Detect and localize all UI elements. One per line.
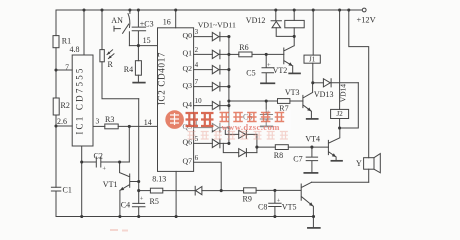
diode VD12 <box>271 10 281 21</box>
capacitor C7 <box>306 147 317 172</box>
wire left rail segments <box>55 10 57 217</box>
svg-text:15: 15 <box>143 36 151 45</box>
svg-text:C1: C1 <box>63 186 72 195</box>
svg-text:14: 14 <box>144 118 152 127</box>
wire IC2 Q3 row <box>194 86 213 88</box>
wire VD8/VD9 junction <box>256 134 258 152</box>
diode VD5 <box>212 101 219 109</box>
capacitor C5 <box>262 54 274 82</box>
op-amp U1 IC1 CD7555 box <box>72 55 93 146</box>
svg-text:7: 7 <box>195 78 199 86</box>
svg-text:C4: C4 <box>121 201 130 210</box>
svg-text:C7: C7 <box>293 154 302 163</box>
light arrows into R <box>107 50 114 59</box>
ground under VT4 emitter <box>331 160 342 162</box>
capacitor C1 <box>51 187 60 191</box>
photoresistor R <box>101 10 103 50</box>
svg-text:VD14: VD14 <box>339 84 348 103</box>
diode VD9 <box>239 149 246 157</box>
ground under C7 <box>304 172 317 174</box>
svg-text:IC1 CD7555: IC1 CD7555 <box>75 66 85 134</box>
diode VD3 <box>212 65 219 73</box>
svg-text:R4: R4 <box>124 65 133 74</box>
wire IC2 pin 15 row <box>129 45 157 47</box>
relay coil J1 <box>312 10 314 55</box>
svg-text:R2: R2 <box>61 101 70 110</box>
capacitor C6 <box>260 101 272 126</box>
svg-text:VT3: VT3 <box>285 88 300 97</box>
ground under VT3 emitter <box>307 118 318 120</box>
ground under VT5 emitter <box>308 227 320 229</box>
wire R bottom down to VT1 base / R5 node <box>138 99 140 204</box>
capacitor C8 <box>269 190 281 216</box>
transistor Q4 VT4 <box>328 128 339 160</box>
resistor R6 <box>229 53 239 55</box>
svg-text:www.dzsc.com: www.dzsc.com <box>222 122 281 132</box>
capacitor C4 <box>132 203 145 216</box>
wire IC2 Q6 row <box>194 142 213 144</box>
switch AN <box>129 10 131 13</box>
node +12V terminal <box>362 8 366 12</box>
transistor Q2 VT2 <box>284 36 294 73</box>
svg-text:VT1: VT1 <box>103 180 118 189</box>
wire VT5 collector to speaker <box>312 181 369 183</box>
diode VD2 <box>212 50 219 58</box>
wire IC1 pin 1 to ground rail <box>81 146 83 217</box>
svg-text:16: 16 <box>163 17 171 26</box>
svg-text:3: 3 <box>96 117 100 126</box>
diode VD7 <box>212 139 219 147</box>
wire IC2 Q1 row <box>194 53 213 55</box>
svg-text:4: 4 <box>195 61 199 69</box>
svg-text:R5: R5 <box>150 197 159 206</box>
svg-text:VT2: VT2 <box>273 66 288 75</box>
wire bus tap to R7 <box>229 100 278 102</box>
relay coil J2 feed wire <box>339 10 341 109</box>
svg-text:R8: R8 <box>274 151 283 160</box>
wire IC2 Q2 row <box>194 69 213 71</box>
svg-text:Y: Y <box>356 159 362 168</box>
diode VD8 <box>239 130 246 138</box>
diode VD13 row <box>313 82 324 84</box>
svg-text:6: 6 <box>195 154 199 162</box>
svg-text:+C3: +C3 <box>140 20 154 29</box>
wire IC2 pins 8,13 to ground rail <box>175 171 177 216</box>
ground under VT2 emitter <box>289 72 300 74</box>
transistor Q1 VT1 <box>120 162 139 217</box>
wire IC2 pin 16 to rail <box>175 10 177 28</box>
transistor Q5 VT5 <box>275 182 314 227</box>
wire IC2 Q4 row <box>194 105 213 107</box>
svg-text:2.6: 2.6 <box>57 117 67 126</box>
svg-text:8.13: 8.13 <box>152 175 166 184</box>
svg-text:Q2: Q2 <box>182 64 192 73</box>
wire Q5 stub to VD8 <box>225 128 238 135</box>
diode VD6 <box>212 123 219 131</box>
svg-text:+: + <box>277 197 281 204</box>
svg-text:Q7: Q7 <box>182 157 192 166</box>
wire IC2 Q5 row <box>194 127 213 129</box>
svg-text:+: + <box>140 196 144 203</box>
svg-text:C2: C2 <box>94 151 103 160</box>
wire Q7 row <box>194 162 222 190</box>
resistor R7 <box>278 99 290 104</box>
svg-text:J2: J2 <box>336 110 343 118</box>
svg-text:R: R <box>108 60 114 69</box>
capacitor C2 <box>82 157 130 167</box>
svg-text:Q0: Q0 <box>182 31 192 40</box>
wire IC1 pin 3 to R3 <box>93 125 105 127</box>
relay coil J2 <box>331 109 349 118</box>
wire IC1 pin 7 <box>56 69 72 71</box>
svg-text:J1: J1 <box>309 56 316 64</box>
wire IC1 pins 2,6 <box>56 125 72 127</box>
svg-text:Q3: Q3 <box>182 81 192 90</box>
svg-text:+12V: +12V <box>357 16 376 25</box>
ground under C5 <box>261 82 274 84</box>
svg-text:Q4: Q4 <box>182 100 192 109</box>
svg-text:R6: R6 <box>239 43 248 52</box>
svg-text:+: + <box>102 166 106 173</box>
svg-text:VD1~VD11: VD1~VD11 <box>198 21 236 30</box>
wire ground bottom rail <box>56 216 314 218</box>
ground under C6 <box>261 125 273 127</box>
resistor R8 <box>257 146 275 148</box>
IC U2 IC2 CD4017 box <box>158 28 194 172</box>
svg-text:VT5: VT5 <box>282 203 297 212</box>
svg-text:C5: C5 <box>246 68 255 77</box>
svg-text:VD13: VD13 <box>314 90 334 99</box>
diode VD11 <box>194 186 196 195</box>
wire pin14 node down to C2 row <box>128 126 130 162</box>
svg-text:7: 7 <box>65 63 69 72</box>
svg-text:Q1: Q1 <box>182 49 192 58</box>
svg-text:+: + <box>267 62 271 69</box>
resistor R9 <box>244 188 257 193</box>
svg-text:IC2 CD4017: IC2 CD4017 <box>157 52 167 105</box>
resistor R4 <box>137 46 139 61</box>
resistor R2 <box>53 98 59 115</box>
capacitor C3 <box>132 10 145 46</box>
resistor R3 <box>105 124 118 129</box>
svg-text:VD12: VD12 <box>246 16 266 25</box>
watermark <box>110 110 291 231</box>
svg-text:VT4: VT4 <box>305 135 320 144</box>
wire R3 to IC2 pin 14 <box>118 125 157 127</box>
ground under R4 <box>133 82 145 84</box>
svg-text:AN: AN <box>111 16 123 25</box>
svg-text:C8: C8 <box>258 203 267 212</box>
transistor Q3 VT3 <box>303 83 313 119</box>
svg-text:R3: R3 <box>105 115 114 124</box>
relay contact J1-1 box <box>285 20 304 27</box>
svg-text:10: 10 <box>195 97 203 105</box>
wire IC2 Q0 row <box>194 36 213 38</box>
resistor R1 <box>53 36 59 48</box>
svg-text:R9: R9 <box>243 194 252 203</box>
wire VD14 loop <box>340 83 359 128</box>
svg-text:4.8: 4.8 <box>70 45 80 54</box>
diode VD1 <box>212 32 219 40</box>
resistor R5 <box>139 190 151 192</box>
wire Q6 stub to VD9 <box>223 143 238 152</box>
wire IC1 pins 4,8 to rail <box>83 10 85 55</box>
wire +12V top rail <box>56 9 362 11</box>
wire speaker feed from rail <box>349 10 369 158</box>
svg-text:2: 2 <box>195 46 199 54</box>
speaker Y <box>364 158 374 170</box>
wire diode OR bus <box>228 37 230 144</box>
diode VD4 <box>212 82 219 90</box>
